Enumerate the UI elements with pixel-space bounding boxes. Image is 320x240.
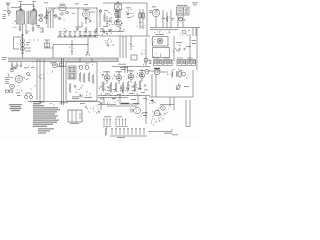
value label xyxy=(103,71,110,74)
cluster xyxy=(58,14,60,20)
cluster xyxy=(154,30,160,33)
cluster xyxy=(27,63,33,67)
cluster xyxy=(142,112,147,117)
tube pin cluster xyxy=(85,18,91,23)
cluster xyxy=(72,13,75,15)
junction xyxy=(157,113,158,114)
junction xyxy=(127,94,130,97)
cluster xyxy=(178,17,186,20)
dial cord arc 2 xyxy=(153,112,168,126)
wire xyxy=(53,44,88,46)
value label xyxy=(5,76,9,79)
wire xyxy=(40,17,42,18)
cluster xyxy=(99,73,105,90)
tube V8 rectifier xyxy=(15,75,22,82)
diode circle xyxy=(179,17,183,21)
antenna xyxy=(6,2,10,9)
wire xyxy=(25,24,27,34)
tube V12 electrodes xyxy=(141,75,144,77)
cluster xyxy=(47,70,53,74)
wire xyxy=(50,10,52,28)
junction xyxy=(134,94,137,97)
tube V9 xyxy=(104,75,110,81)
junction xyxy=(54,15,57,18)
junction xyxy=(110,94,113,97)
label xyxy=(2,58,6,61)
IF transformer T2 can xyxy=(177,7,183,15)
tube element cluster xyxy=(116,20,123,26)
junction xyxy=(8,11,11,14)
label xyxy=(116,116,122,119)
value label xyxy=(131,98,136,101)
label xyxy=(4,9,7,12)
value label xyxy=(120,66,127,69)
wire xyxy=(186,126,190,128)
wire xyxy=(85,17,87,24)
capacitor xyxy=(32,28,34,29)
wire xyxy=(75,26,82,28)
tube V6 xyxy=(52,62,57,67)
speaker xyxy=(177,71,182,78)
value label xyxy=(117,93,121,96)
resistor xyxy=(103,14,105,22)
label cluster xyxy=(90,20,93,22)
wire xyxy=(71,40,73,55)
value label xyxy=(129,92,133,95)
junction xyxy=(33,39,36,42)
wire AVC bus xyxy=(150,27,200,29)
cluster xyxy=(161,17,164,22)
value label xyxy=(184,85,189,88)
label xyxy=(118,63,126,66)
wire xyxy=(25,50,31,52)
tube label xyxy=(83,8,90,11)
resistor xyxy=(127,81,129,92)
cluster xyxy=(104,12,113,25)
wire xyxy=(44,39,50,41)
cluster xyxy=(68,85,90,97)
label xyxy=(164,132,172,135)
wire xyxy=(107,105,137,107)
cluster xyxy=(172,45,180,53)
wire xyxy=(160,71,168,73)
wire xyxy=(38,19,39,21)
label xyxy=(60,102,68,105)
wire xyxy=(173,97,175,111)
cluster xyxy=(70,46,74,51)
value label xyxy=(133,102,139,105)
capacitor xyxy=(184,48,185,50)
wire xyxy=(145,106,147,124)
capacitor xyxy=(19,27,21,28)
wire xyxy=(10,68,17,70)
can winding cluster xyxy=(177,9,187,14)
output transformer box xyxy=(153,37,169,47)
wire xyxy=(130,80,132,83)
wire xyxy=(145,96,147,107)
trimmer circle xyxy=(45,16,48,19)
wire xyxy=(14,36,23,38)
value label xyxy=(100,28,104,31)
battery antenna xyxy=(99,102,103,110)
wire xyxy=(141,79,143,83)
junction xyxy=(40,96,41,97)
trimmer fan 1 xyxy=(19,6,24,12)
tube V3 detector xyxy=(152,9,159,16)
wire xyxy=(19,24,21,27)
value label xyxy=(113,88,117,91)
padder trimmer 1 xyxy=(39,14,42,17)
IF transformer T3 can xyxy=(184,7,190,15)
label xyxy=(44,2,48,5)
wire xyxy=(42,28,44,33)
wire xyxy=(106,71,108,74)
value label xyxy=(139,69,145,72)
curve xyxy=(8,73,13,78)
junction xyxy=(45,16,48,19)
resistor xyxy=(102,82,104,92)
junction xyxy=(22,37,23,38)
value label xyxy=(141,91,145,94)
wire tuning bus xyxy=(22,24,24,36)
resistor xyxy=(166,16,168,22)
wire xyxy=(36,59,38,100)
value label xyxy=(3,15,6,18)
value label xyxy=(192,39,197,42)
wire xyxy=(81,22,83,27)
value label xyxy=(72,97,79,100)
capacitor xyxy=(59,18,61,19)
cluster xyxy=(148,99,156,104)
value label xyxy=(26,41,30,44)
cluster xyxy=(180,30,189,36)
wire xyxy=(96,8,98,35)
value label xyxy=(36,24,40,27)
capacitor xyxy=(21,53,23,54)
wire xyxy=(20,3,22,6)
label xyxy=(155,33,164,36)
label xyxy=(61,6,65,9)
wire xyxy=(99,10,101,27)
wire xyxy=(122,36,124,58)
dial cluster xyxy=(153,111,166,122)
trimmer xyxy=(66,11,69,14)
junction xyxy=(29,39,32,42)
switch contacts row xyxy=(111,128,144,135)
fuse circle 2 xyxy=(85,66,89,70)
switch wafer 2 xyxy=(115,119,128,127)
wire xyxy=(119,26,121,31)
tube V1 converter xyxy=(83,11,90,18)
value label xyxy=(3,17,7,20)
tube socket diagram 2 xyxy=(164,58,173,66)
wire xyxy=(14,48,20,50)
value label xyxy=(127,70,134,73)
wire xyxy=(120,103,140,105)
capacitor xyxy=(74,86,76,87)
cluster xyxy=(103,29,112,36)
resistor xyxy=(79,72,81,82)
inter-tube cluster xyxy=(124,75,129,79)
tube V7 cross xyxy=(158,39,162,43)
resistor xyxy=(83,73,85,83)
tube V2 IF amplifier xyxy=(115,20,122,27)
cluster xyxy=(125,9,133,16)
resistor xyxy=(92,74,94,84)
dial pulley 1 xyxy=(154,110,160,116)
value label xyxy=(120,90,124,93)
caption text xyxy=(9,104,22,111)
switch wafer 1 xyxy=(103,119,111,127)
value label xyxy=(16,92,20,95)
capacitor xyxy=(108,87,110,88)
wire xyxy=(192,28,194,37)
wire xyxy=(77,8,79,30)
junction xyxy=(139,94,142,97)
cluster xyxy=(152,40,156,45)
tube V11 xyxy=(128,74,134,80)
resistor xyxy=(105,127,107,136)
capacitor xyxy=(120,88,122,89)
cluster xyxy=(170,17,175,20)
label xyxy=(32,0,35,3)
wire xyxy=(25,47,31,49)
label xyxy=(75,3,79,6)
wire xyxy=(155,74,157,97)
wire B+ line xyxy=(48,7,97,9)
wire xyxy=(46,40,48,48)
value label xyxy=(26,44,29,47)
IF winding xyxy=(115,11,121,18)
value label xyxy=(50,62,54,65)
cluster xyxy=(104,38,114,45)
wire xyxy=(160,104,174,106)
cluster xyxy=(119,29,125,35)
diode circle 2 xyxy=(182,30,186,34)
small box xyxy=(60,63,64,66)
pilot lamp 1 xyxy=(25,96,28,99)
capacitor xyxy=(16,65,18,66)
wire xyxy=(110,135,147,137)
value label xyxy=(144,89,148,92)
label xyxy=(154,68,160,69)
wire xyxy=(98,104,116,106)
capacitor xyxy=(179,48,180,50)
cluster xyxy=(153,6,159,11)
wire xyxy=(28,11,30,24)
wire xyxy=(13,37,15,49)
wire xyxy=(112,66,150,68)
arrow xyxy=(150,100,153,102)
chassis bar top edge xyxy=(8,57,118,59)
small trimmer xyxy=(99,10,102,13)
resistor xyxy=(134,81,136,91)
wire xyxy=(141,69,143,73)
small circle xyxy=(176,86,180,90)
junction xyxy=(40,14,43,17)
value label xyxy=(149,9,152,12)
voice coil circle xyxy=(182,72,186,76)
resistor xyxy=(88,72,90,82)
tube V13 xyxy=(154,69,160,75)
wire xyxy=(146,3,148,36)
wire xyxy=(130,36,132,50)
wire twisted pair a xyxy=(61,58,63,105)
tube socket diagram 4 xyxy=(187,58,196,66)
antenna coil L1 box xyxy=(16,11,24,24)
resistor xyxy=(95,28,97,33)
junction xyxy=(37,39,40,42)
ground xyxy=(103,31,106,34)
cluster xyxy=(168,70,175,77)
wire xyxy=(47,10,49,28)
wire xyxy=(117,10,119,20)
value label xyxy=(104,9,108,12)
cluster xyxy=(107,99,118,104)
wire xyxy=(166,12,168,28)
cluster xyxy=(11,66,16,70)
cluster xyxy=(30,100,42,102)
power supply enclosure xyxy=(66,62,97,101)
value label xyxy=(3,13,7,16)
capacitor xyxy=(127,13,128,15)
tube V10 xyxy=(116,75,122,81)
wire xyxy=(106,16,108,26)
IF transformer top mark xyxy=(117,2,120,4)
cluster xyxy=(38,74,45,79)
junction xyxy=(72,44,73,45)
ground xyxy=(98,111,101,114)
label xyxy=(80,102,85,105)
small tube xyxy=(145,70,149,74)
value label xyxy=(24,67,29,70)
value label xyxy=(192,42,196,45)
label xyxy=(60,3,66,6)
junction xyxy=(122,94,125,97)
resistor xyxy=(139,80,141,90)
chassis bar bottom edge xyxy=(8,61,118,63)
label xyxy=(117,136,125,139)
trimmer xyxy=(61,13,63,15)
wire xyxy=(98,97,128,99)
wire xyxy=(98,95,150,97)
wire xyxy=(182,15,184,28)
dial dots xyxy=(153,108,169,122)
wire xyxy=(40,27,43,29)
label xyxy=(177,4,187,7)
value label xyxy=(149,11,153,14)
resistor xyxy=(115,82,117,92)
wire xyxy=(150,29,178,31)
speaker circle xyxy=(134,107,141,114)
speaker cone xyxy=(131,109,134,113)
wire xyxy=(16,62,18,65)
wire xyxy=(52,10,54,28)
wire xyxy=(7,9,9,11)
wire xyxy=(103,98,105,105)
value label xyxy=(126,7,131,10)
tube V12 xyxy=(139,73,144,78)
wire xyxy=(79,58,81,62)
cluster xyxy=(97,105,99,109)
capacitor xyxy=(21,34,23,35)
value label xyxy=(138,87,142,90)
AVC component row xyxy=(58,31,96,37)
chassis bar mid line xyxy=(8,59,118,61)
junction xyxy=(22,40,23,41)
cluster xyxy=(79,63,92,67)
junction xyxy=(40,19,43,22)
small box xyxy=(131,55,137,60)
trimmer fan 2 xyxy=(32,6,37,12)
cluster xyxy=(26,31,30,34)
coupling cluster xyxy=(46,8,55,16)
wire antenna lead xyxy=(11,7,20,9)
value label xyxy=(126,88,130,91)
wire xyxy=(189,100,191,127)
tube socket diagram 3 xyxy=(177,58,186,66)
cluster xyxy=(61,28,67,34)
value label xyxy=(84,96,92,99)
value label xyxy=(5,80,9,83)
wire xyxy=(11,66,13,68)
wire xyxy=(151,74,153,97)
wire xyxy=(80,35,100,37)
wire xyxy=(87,38,89,55)
socket cluster xyxy=(85,106,97,114)
IF terminal cluster xyxy=(113,11,117,17)
wire xyxy=(118,81,120,84)
wire xyxy=(43,59,45,103)
wire xyxy=(119,96,121,105)
inter-tube cluster xyxy=(112,74,116,79)
phono jack xyxy=(8,11,11,14)
wire xyxy=(100,35,150,37)
tube V10 electrodes xyxy=(118,77,121,79)
junction xyxy=(97,8,98,9)
wire xyxy=(106,81,108,84)
resistor R in box xyxy=(139,13,141,18)
notes text xyxy=(33,101,60,127)
wire xyxy=(192,70,194,97)
wire xyxy=(139,9,141,29)
wire xyxy=(91,58,93,62)
wire xyxy=(57,66,66,68)
wire xyxy=(46,7,48,24)
resistor xyxy=(85,27,87,33)
value label xyxy=(103,25,108,28)
wire xyxy=(173,36,175,61)
wire xyxy=(125,36,127,58)
cluster xyxy=(139,114,142,118)
value label xyxy=(37,26,40,29)
value label xyxy=(17,94,21,97)
value label xyxy=(5,78,10,81)
cluster xyxy=(12,20,16,27)
wire xyxy=(33,3,35,6)
wire xyxy=(28,101,44,103)
junction xyxy=(163,108,164,109)
tube V9 electrodes xyxy=(106,77,109,79)
socket row tick xyxy=(149,60,152,65)
field coil cluster xyxy=(176,84,181,90)
wire xyxy=(127,66,129,73)
resistor in box xyxy=(142,13,144,18)
cluster xyxy=(17,86,22,92)
cluster xyxy=(168,30,171,33)
small box xyxy=(45,43,50,47)
wire xyxy=(103,2,147,4)
